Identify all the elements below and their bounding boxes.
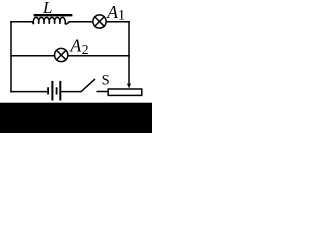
wire battery to switch bbox=[61, 91, 81, 93]
svg-text:2: 2 bbox=[82, 42, 89, 57]
battery cell bar tall 1 bbox=[51, 81, 53, 101]
battery cell bar tall 2 bbox=[59, 81, 61, 101]
battery cell bar short 2 bbox=[56, 87, 58, 94]
left vertical wire bbox=[10, 22, 12, 92]
middle wire right bbox=[68, 55, 129, 57]
lamp A1 bbox=[93, 15, 106, 28]
rheostat wiper arrowhead bbox=[127, 84, 131, 89]
black band at bottom bbox=[0, 103, 152, 133]
switch right lead bbox=[97, 91, 108, 93]
lamp A2 bbox=[55, 48, 68, 61]
svg-text:1: 1 bbox=[118, 8, 126, 24]
middle wire left bbox=[11, 55, 54, 57]
wire lamp A1 to right bbox=[106, 21, 129, 23]
right vertical wire bbox=[128, 22, 130, 84]
rheostat box bbox=[108, 89, 142, 95]
inductor L coil bbox=[33, 17, 70, 24]
battery cell bar short 1 bbox=[47, 87, 49, 94]
svg-text:L: L bbox=[42, 0, 52, 17]
inductor core bar bbox=[34, 14, 73, 16]
wire top-left horizontal bbox=[11, 22, 33, 24]
bottom wire to battery bbox=[11, 91, 47, 93]
wire coil to lamp A1 bbox=[70, 21, 93, 23]
svg-text:A: A bbox=[106, 2, 118, 22]
svg-text:S: S bbox=[102, 73, 110, 89]
switch S blade bbox=[81, 79, 95, 92]
svg-text:A: A bbox=[70, 35, 82, 55]
